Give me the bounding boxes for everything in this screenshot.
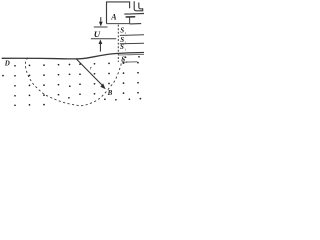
- svg-text:D: D: [4, 60, 10, 68]
- svg-text:U: U: [94, 29, 101, 39]
- svg-text:A: A: [110, 12, 117, 21]
- svg-text:B: B: [107, 89, 113, 97]
- svg-text:1: 1: [125, 48, 127, 52]
- svg-text:S: S: [120, 43, 124, 51]
- svg-text:r: r: [90, 65, 93, 71]
- svg-text:S: S: [120, 26, 124, 34]
- svg-text:1: 1: [125, 31, 127, 35]
